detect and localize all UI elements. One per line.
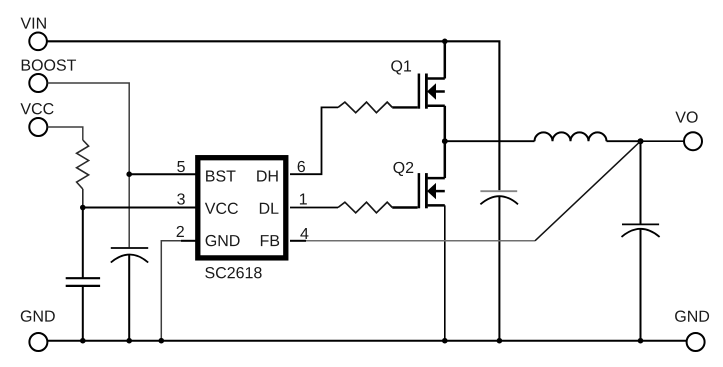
wire VO node to port: [641, 140, 685, 142]
capacitor C4 (output): [622, 141, 660, 341]
port VCC: [29, 118, 47, 136]
transistor Q1: [419, 41, 445, 141]
junction VCC node: [80, 205, 86, 211]
pin number 1: [300, 193, 307, 204]
pin name GND: [206, 235, 240, 246]
transistor Q2 body arrow: [427, 183, 436, 199]
port VIN: [29, 33, 47, 51]
pin name FB: [261, 235, 279, 246]
wire BOOST to BST cap: [48, 83, 130, 247]
label BOOST: [22, 59, 76, 70]
wire R3 to Q2 gate: [392, 206, 417, 208]
junction switch node: [442, 138, 448, 144]
junction C3 GND: [497, 338, 503, 344]
wire inductor to VO node: [607, 140, 641, 142]
junction BST node: [126, 171, 132, 177]
wire pin 2 stub: [181, 240, 196, 242]
resistor R3 (Q2 gate): [338, 202, 392, 213]
wire pin 2 to GND: [161, 241, 181, 341]
label Q2: [393, 162, 413, 176]
capacitor C2 (BST): [111, 248, 148, 341]
wire VCC to resistor: [48, 127, 83, 140]
pin number 5: [177, 161, 185, 172]
pin number 4: [300, 228, 308, 239]
junction pin 2 GND: [159, 338, 165, 344]
op-amp U1 SC2618 body: [198, 158, 286, 258]
label VO: [675, 111, 697, 122]
wire pin 4 (FB) stub: [290, 240, 306, 242]
wire GND rail: [47, 340, 686, 342]
wire VIN rail: [47, 41, 499, 190]
label SC2618: [205, 267, 261, 278]
label VCC: [20, 103, 53, 114]
capacitor C3 (input): [480, 191, 518, 341]
resistor R2 (Q1 gate): [338, 102, 392, 113]
wire pin 1 (DL) to gate resistor: [290, 207, 338, 209]
wire switch node to inductor: [445, 140, 535, 142]
wire R2 to Q1 gate: [392, 106, 417, 108]
pin name DL: [260, 203, 279, 214]
wire FB net: [306, 240, 535, 242]
port GND right: [687, 333, 705, 351]
label GND right: [675, 311, 709, 322]
junction VO node: [638, 138, 644, 144]
pin name DH: [257, 170, 278, 181]
junction C4 GND: [638, 338, 644, 344]
transistor Q2: [419, 141, 445, 208]
wire resistor to VCC node: [82, 189, 84, 208]
label Q1: [391, 60, 411, 74]
inductor L1: [535, 132, 607, 141]
resistor R1 (VCC): [77, 140, 89, 189]
junction C2 GND: [126, 338, 132, 344]
wire FB diagonal to VO node: [535, 141, 641, 241]
pin name VCC: [205, 203, 238, 214]
wire VCC node to pin 3: [83, 207, 196, 209]
junction Q2 source GND: [442, 338, 448, 344]
port GND left: [29, 333, 47, 351]
label VIN: [21, 18, 46, 29]
junction C1 GND: [80, 338, 86, 344]
pin number 2: [177, 226, 184, 237]
wire Q2 source to GND: [444, 205, 446, 340]
capacitor C1 (VCC bypass): [66, 208, 100, 341]
junction VIN / Q1 drain: [442, 39, 448, 45]
label GND left: [21, 310, 55, 321]
wire BST node to pin 5: [129, 173, 196, 175]
port BOOST: [29, 74, 47, 92]
transistor Q1 body arrow: [427, 83, 436, 99]
pin number 6: [298, 161, 305, 172]
pin name BST: [206, 170, 235, 181]
wire pin 6 (DH) to gate resistor: [290, 107, 338, 174]
pin number 3: [177, 193, 185, 204]
port VO: [684, 132, 702, 150]
